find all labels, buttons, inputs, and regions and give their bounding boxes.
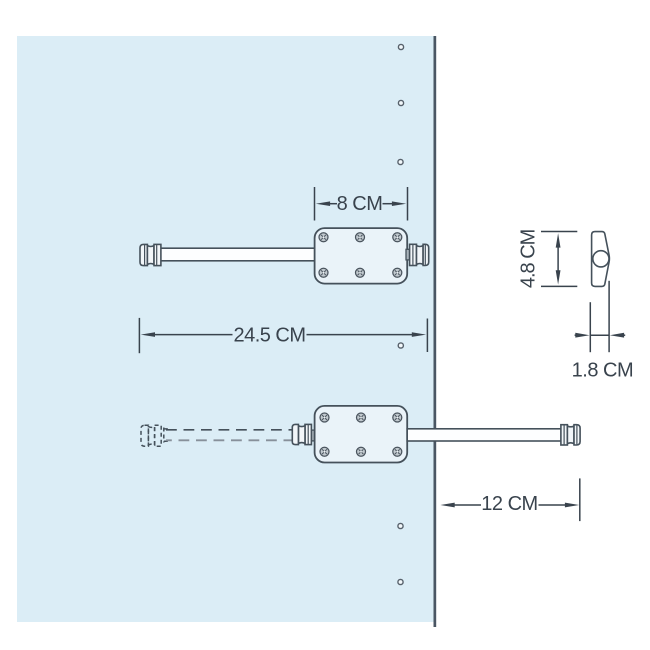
svg-text:12 CM: 12 CM <box>481 493 537 515</box>
svg-text:1.8 CM: 1.8 CM <box>572 360 633 382</box>
svg-text:8 CM: 8 CM <box>337 193 383 215</box>
svg-text:24.5 CM: 24.5 CM <box>233 325 305 347</box>
svg-text:4.8 CM: 4.8 CM <box>518 229 540 288</box>
